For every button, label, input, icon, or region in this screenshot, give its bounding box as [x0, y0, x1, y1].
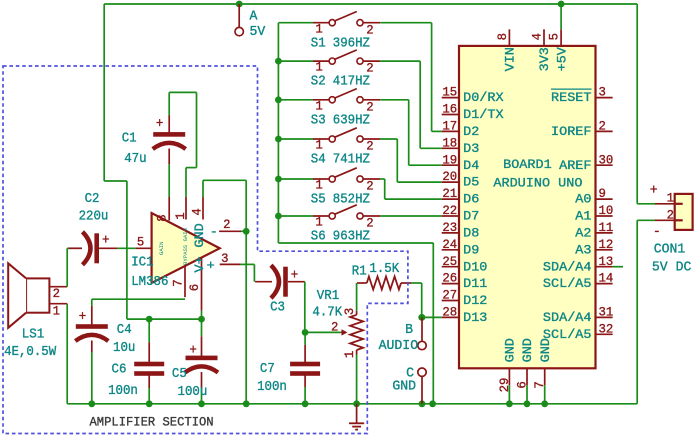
svg-text:2: 2 — [331, 319, 338, 334]
svg-text:3: 3 — [221, 251, 228, 266]
svg-text:R1: R1 — [352, 265, 367, 280]
svg-text:6: 6 — [187, 284, 202, 291]
svg-text:2: 2 — [53, 286, 60, 301]
svg-text:639HZ: 639HZ — [333, 113, 370, 128]
svg-text:2: 2 — [366, 216, 373, 231]
svg-text:10: 10 — [599, 203, 614, 218]
svg-text:25: 25 — [442, 254, 457, 269]
svg-text:18: 18 — [442, 135, 457, 150]
svg-text:3: 3 — [342, 308, 357, 315]
svg-text:GND: GND — [392, 379, 416, 395]
svg-text:D0/RX: D0/RX — [463, 90, 504, 105]
svg-text:D9: D9 — [463, 242, 479, 257]
svg-text:22: 22 — [442, 203, 457, 218]
svg-text:10u: 10u — [113, 341, 135, 356]
svg-text:BYPASS GAIN: BYPASS GAIN — [182, 228, 189, 265]
svg-text:A0: A0 — [575, 192, 591, 207]
svg-text:D7: D7 — [463, 209, 479, 224]
svg-text:8: 8 — [495, 33, 510, 40]
svg-text:1: 1 — [53, 304, 60, 319]
svg-text:C1: C1 — [122, 131, 137, 146]
svg-text:VR1: VR1 — [317, 289, 339, 304]
svg-text:S3: S3 — [311, 113, 326, 128]
svg-text:1: 1 — [315, 178, 322, 193]
svg-text:A3: A3 — [575, 242, 591, 257]
svg-text:2: 2 — [366, 22, 373, 37]
svg-text:3: 3 — [599, 85, 606, 100]
svg-text:D5: D5 — [463, 175, 479, 190]
svg-text:26: 26 — [442, 271, 457, 286]
svg-text:+: + — [207, 258, 215, 273]
svg-text:27: 27 — [442, 288, 457, 303]
svg-text:20: 20 — [442, 169, 457, 184]
svg-text:4E,0.5W: 4E,0.5W — [4, 345, 57, 360]
svg-text:15: 15 — [442, 85, 457, 100]
svg-text:S5: S5 — [311, 193, 326, 208]
svg-text:2: 2 — [599, 119, 606, 134]
svg-text:S4: S4 — [311, 153, 326, 168]
svg-text:AMPLIFIER SECTION: AMPLIFIER SECTION — [90, 414, 214, 429]
svg-text:13: 13 — [599, 254, 614, 269]
svg-text:GND: GND — [192, 223, 207, 248]
svg-text:5V: 5V — [250, 24, 266, 40]
svg-text:D11: D11 — [463, 276, 488, 291]
svg-text:D3: D3 — [463, 141, 479, 156]
svg-text:852HZ: 852HZ — [333, 193, 370, 208]
svg-text:4: 4 — [529, 33, 544, 40]
svg-text:C3: C3 — [270, 301, 285, 316]
svg-text:LM386: LM386 — [131, 275, 168, 290]
svg-text:D12: D12 — [463, 293, 487, 308]
svg-text:2: 2 — [667, 208, 674, 223]
svg-text:+: + — [79, 310, 87, 325]
svg-text:5V DC: 5V DC — [652, 260, 692, 276]
svg-text:1: 1 — [667, 190, 674, 205]
svg-text:C6: C6 — [112, 362, 127, 377]
svg-text:S1: S1 — [311, 36, 326, 51]
svg-text:SDA/A4: SDA/A4 — [543, 310, 592, 325]
svg-text:D13: D13 — [463, 310, 487, 325]
svg-text:1: 1 — [342, 351, 357, 358]
svg-text:5: 5 — [547, 33, 562, 40]
svg-text:A2: A2 — [575, 226, 591, 241]
svg-text:V+: V+ — [192, 256, 207, 272]
svg-text:24: 24 — [442, 237, 457, 252]
svg-text:D8: D8 — [463, 226, 479, 241]
svg-text:CON1: CON1 — [654, 242, 686, 258]
svg-text:21: 21 — [442, 186, 457, 201]
svg-text:28: 28 — [442, 305, 457, 320]
svg-text:BOARD1: BOARD1 — [503, 157, 552, 172]
svg-text:RESET: RESET — [551, 90, 592, 105]
svg-text:2: 2 — [223, 217, 230, 232]
svg-text:1: 1 — [315, 21, 322, 36]
svg-text:12: 12 — [599, 237, 614, 252]
svg-text:8: 8 — [155, 214, 170, 221]
svg-text:B: B — [405, 322, 413, 338]
svg-text:3V3: 3V3 — [537, 47, 552, 71]
svg-text:A1: A1 — [575, 209, 592, 224]
svg-text:D4: D4 — [463, 158, 480, 173]
svg-text:SCL/A5: SCL/A5 — [543, 276, 592, 291]
svg-text:9: 9 — [599, 186, 606, 201]
svg-text:GND: GND — [538, 338, 553, 363]
svg-text:D2: D2 — [463, 124, 479, 139]
svg-text:-: - — [653, 224, 661, 240]
svg-text:+: + — [102, 234, 110, 249]
svg-text:D6: D6 — [463, 192, 479, 207]
svg-text:100n: 100n — [257, 380, 287, 395]
svg-text:417HZ: 417HZ — [333, 75, 370, 90]
svg-text:+: + — [156, 117, 164, 132]
svg-text:+: + — [291, 268, 299, 283]
svg-text:+: + — [650, 182, 658, 198]
svg-text:7: 7 — [532, 381, 547, 388]
svg-text:C4: C4 — [117, 323, 132, 338]
svg-text:1: 1 — [315, 138, 322, 153]
svg-text:IOREF: IOREF — [551, 124, 592, 139]
svg-text:VIN: VIN — [503, 47, 518, 71]
svg-text:AUDIO: AUDIO — [379, 338, 419, 354]
svg-text:LS1: LS1 — [22, 328, 44, 343]
svg-text:32: 32 — [599, 321, 614, 336]
svg-text:29: 29 — [497, 378, 512, 393]
svg-text:7: 7 — [171, 279, 186, 286]
svg-text:19: 19 — [442, 152, 457, 167]
svg-text:C7: C7 — [260, 362, 275, 377]
svg-text:GND: GND — [503, 338, 518, 363]
svg-text:1: 1 — [315, 215, 322, 230]
svg-text:220u: 220u — [79, 210, 109, 225]
svg-text:+5V: +5V — [554, 47, 569, 72]
svg-text:1: 1 — [315, 60, 322, 75]
svg-text:GND: GND — [520, 338, 535, 363]
svg-text:6: 6 — [515, 381, 530, 388]
svg-text:1.5K: 1.5K — [369, 262, 400, 277]
svg-text:16: 16 — [442, 102, 457, 117]
svg-text:GAIN: GAIN — [158, 242, 165, 255]
svg-text:D10: D10 — [463, 259, 487, 274]
svg-text:1: 1 — [173, 212, 188, 219]
svg-text:2: 2 — [366, 179, 373, 194]
svg-text:5: 5 — [137, 235, 144, 250]
svg-text:11: 11 — [599, 220, 614, 235]
svg-text:SDA/A4: SDA/A4 — [543, 259, 592, 274]
svg-text:C2: C2 — [85, 192, 100, 207]
svg-text:IC1: IC1 — [131, 256, 153, 271]
svg-text:4.7K: 4.7K — [312, 306, 343, 321]
svg-text:2: 2 — [366, 99, 373, 114]
svg-text:1: 1 — [315, 98, 322, 113]
svg-text:14: 14 — [599, 271, 614, 286]
svg-text:-: - — [210, 224, 218, 239]
svg-text:100u: 100u — [178, 385, 208, 400]
svg-text:ARDUINO UNO: ARDUINO UNO — [493, 176, 582, 191]
svg-text:AREF: AREF — [559, 158, 591, 173]
svg-text:17: 17 — [442, 119, 457, 134]
svg-text:2: 2 — [366, 139, 373, 154]
svg-text:30: 30 — [599, 152, 614, 167]
svg-text:2: 2 — [366, 61, 373, 76]
svg-text:A: A — [250, 9, 258, 25]
svg-text:31: 31 — [599, 305, 614, 320]
svg-text:S2: S2 — [311, 75, 326, 90]
svg-text:741HZ: 741HZ — [333, 153, 370, 168]
svg-text:4: 4 — [189, 208, 204, 215]
svg-text:47u: 47u — [124, 152, 146, 167]
svg-text:C5: C5 — [172, 367, 187, 382]
svg-text:100n: 100n — [108, 384, 138, 399]
svg-text:23: 23 — [442, 220, 457, 235]
svg-text:D1/TX: D1/TX — [463, 107, 504, 122]
svg-text:+: + — [189, 343, 197, 358]
svg-text:396HZ: 396HZ — [333, 36, 370, 51]
